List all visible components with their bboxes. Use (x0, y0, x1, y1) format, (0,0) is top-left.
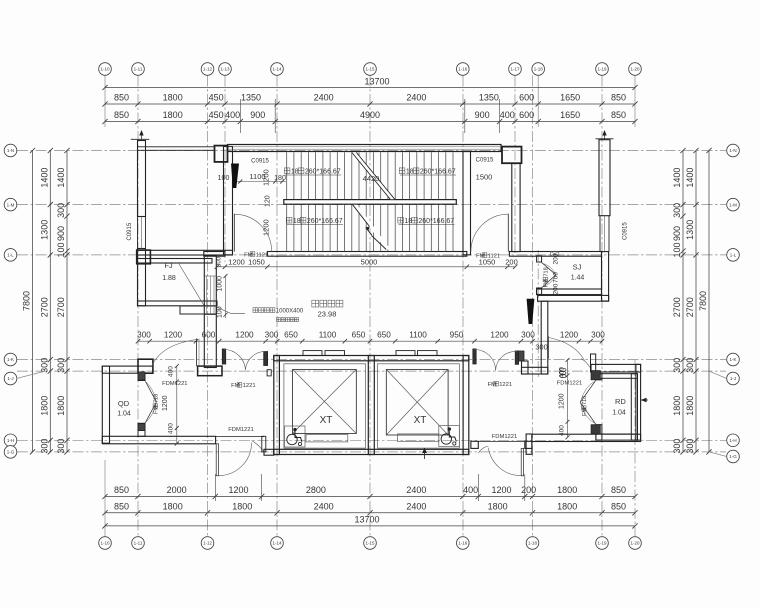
svg-text:100: 100 (218, 175, 230, 182)
door SJ leaf2 (542, 275, 556, 288)
grid line 1-K (17, 359, 726, 361)
door arc FM1121 right (471, 214, 508, 251)
door FM1221 jamb right (264, 352, 268, 366)
wall QD right upper (138, 373, 145, 380)
wall niche right (541, 301, 548, 374)
svg-text:650: 650 (377, 331, 391, 340)
svg-text:300: 300 (137, 331, 151, 340)
left dim inner line (66, 151, 68, 452)
svg-text:FDM1221: FDM1221 (162, 381, 187, 387)
svg-text:300: 300 (39, 358, 49, 373)
wall lobby top seg1 (204, 252, 225, 257)
svg-text:850: 850 (114, 502, 129, 512)
svg-text:1200: 1200 (560, 331, 579, 340)
svg-text:1300: 1300 (39, 220, 49, 240)
svg-text:2700: 2700 (56, 297, 66, 317)
svg-text:4420: 4420 (363, 174, 380, 183)
dim line QD v (176, 366, 178, 443)
right dim 7800 line (708, 151, 710, 452)
grid bubble right 1-H (727, 434, 740, 447)
svg-text:300: 300 (685, 358, 695, 373)
svg-text:850: 850 (611, 93, 626, 103)
grid line 1-J (17, 370, 726, 372)
elevator enclosure right wall (463, 356, 469, 455)
door arc FM1121 left (234, 214, 271, 251)
stair treads (286, 152, 288, 199)
svg-text:1-G: 1-G (7, 450, 15, 455)
door RD leaf2 (580, 402, 596, 424)
grid bubble right 1-G (727, 450, 740, 463)
grid bubble top 1-16 (457, 63, 470, 76)
svg-text:400: 400 (225, 110, 240, 120)
svg-text:1-20: 1-20 (630, 541, 640, 546)
wall stair left (224, 147, 233, 255)
svg-text:RD: RD (615, 397, 626, 406)
svg-text:1200: 1200 (164, 331, 183, 340)
svg-text:1400: 1400 (672, 168, 682, 188)
wall lobby top seg3 (509, 252, 601, 257)
grid line 1-17 (514, 76, 516, 257)
elevator shaft1 inner (284, 364, 366, 448)
svg-text:13700: 13700 (364, 77, 389, 87)
arrow cap right wall top (596, 138, 614, 140)
svg-text:300: 300 (39, 439, 49, 454)
dim line inner row (138, 340, 602, 342)
svg-text:300: 300 (265, 331, 279, 340)
grid bubble left 1-K (4, 353, 17, 366)
svg-text:FJ: FJ (164, 261, 173, 270)
wheelchair symbol 2 (439, 426, 460, 447)
svg-text:5000: 5000 (361, 257, 378, 266)
svg-text:1-J: 1-J (730, 376, 736, 381)
svg-text:260*166.67: 260*166.67 (305, 169, 341, 176)
corner block QD (138, 359, 153, 373)
svg-text:1.44: 1.44 (571, 275, 585, 282)
svg-text:1800: 1800 (557, 502, 577, 512)
right J leader (709, 371, 727, 378)
svg-text:1-M: 1-M (7, 202, 15, 207)
svg-text:1121: 1121 (256, 252, 268, 258)
svg-text:C0915: C0915 (127, 222, 133, 240)
grid bubble right 1-M (727, 198, 740, 211)
svg-text:850: 850 (611, 485, 626, 495)
svg-text:400: 400 (559, 367, 566, 378)
wall lobby top seg2 (267, 252, 466, 257)
grid bubble top 1-14 (271, 63, 284, 76)
grid line 1-H (17, 439, 726, 441)
svg-text:1800: 1800 (163, 110, 183, 120)
svg-text:4900: 4900 (360, 110, 380, 120)
svg-text:1800: 1800 (163, 502, 183, 512)
svg-text:1200: 1200 (490, 331, 509, 340)
svg-text:18: 18 (293, 218, 301, 225)
svg-text:300: 300 (672, 439, 682, 454)
grid line 1-M (17, 204, 726, 206)
drain symbol (560, 368, 566, 371)
svg-text:2400: 2400 (314, 502, 334, 512)
svg-text:1-12: 1-12 (203, 541, 213, 546)
jamb RD bottom (591, 425, 600, 434)
svg-text:300: 300 (591, 331, 605, 340)
svg-text:2400: 2400 (406, 93, 426, 103)
svg-text:1-18: 1-18 (528, 541, 538, 546)
svg-text:2700: 2700 (672, 297, 682, 317)
svg-text:1-J: 1-J (7, 376, 13, 381)
svg-text:1000: 1000 (217, 276, 224, 292)
svg-text:1-15: 1-15 (365, 541, 375, 546)
svg-text:1400: 1400 (685, 168, 695, 188)
counterweight 2 (398, 434, 439, 441)
door bottom-right leaf (521, 448, 523, 475)
svg-text:260*166.67: 260*166.67 (418, 218, 454, 225)
svg-text:1650: 1650 (560, 110, 580, 120)
door FDM1221-bottom-left leaf (216, 444, 218, 476)
wheelchair symbol 1 (285, 426, 306, 447)
dim line 13700 top (105, 87, 635, 89)
grid line 1-G (17, 451, 726, 453)
stair lower break line2 (372, 236, 387, 250)
door RD leaf1 (580, 380, 596, 402)
svg-text:2000: 2000 (167, 485, 187, 495)
grid bubble right 1-L (727, 249, 740, 262)
grid line x=277 (276, 76, 278, 537)
door FMJ arcs (475, 349, 496, 370)
right dim mid line (695, 151, 697, 452)
svg-text:2400: 2400 (314, 93, 334, 103)
elevator cab1 (293, 369, 357, 433)
leader window size (217, 307, 232, 314)
svg-text:1200: 1200 (559, 393, 566, 409)
grid bubble bottom 1-15 (364, 537, 377, 550)
svg-text:400: 400 (500, 110, 515, 120)
svg-text:C0915: C0915 (251, 159, 269, 165)
wall RD room top (596, 374, 638, 379)
stair upper break lines (352, 152, 390, 199)
svg-text:1-M: 1-M (729, 202, 737, 207)
svg-text:1-14: 1-14 (272, 541, 282, 546)
grid line 1-L (17, 254, 726, 256)
svg-text:260*166.67: 260*166.67 (307, 218, 343, 225)
wall outer bottom right-mid (538, 295, 609, 301)
stair label upper-right (399, 168, 405, 174)
door bottom-right arc (488, 448, 521, 476)
wall FJ pier (180, 306, 216, 314)
svg-text:1-20: 1-20 (630, 67, 640, 72)
svg-text:1-16: 1-16 (458, 67, 468, 72)
svg-text:1.04: 1.04 (117, 411, 131, 418)
corner block upper-left (137, 250, 151, 264)
grid bubble bottom 1-20 (629, 537, 642, 550)
left dim mid line (49, 151, 51, 452)
svg-text:1-18: 1-18 (534, 67, 544, 72)
grid bubble top 1-20 (629, 63, 642, 76)
label window note (277, 318, 281, 322)
svg-text:450: 450 (209, 93, 224, 103)
svg-text:1800: 1800 (672, 396, 682, 416)
window band top (228, 145, 502, 152)
label FM718 SJ (543, 267, 549, 287)
dim line rlobby v (567, 360, 569, 437)
svg-text:1-H: 1-H (7, 438, 14, 443)
svg-text:600: 600 (202, 331, 216, 340)
elevator door panel 303 (303, 351, 322, 356)
window 1000x400 in wall (206, 276, 208, 315)
svg-text:FM: FM (154, 406, 160, 414)
svg-text:1-K: 1-K (7, 357, 14, 362)
wall niche bottom (522, 367, 548, 374)
door leaf FM1121 left (233, 214, 235, 252)
wall top FJ-upper (138, 147, 215, 151)
stair lower break gap (353, 205, 391, 250)
grid line 1-18 top (537, 76, 539, 128)
wall QD bottom (102, 436, 215, 444)
svg-text:1200: 1200 (228, 485, 248, 495)
grid bubble right 1-N (727, 144, 740, 157)
svg-text:1800: 1800 (56, 396, 66, 416)
svg-text:100: 100 (672, 242, 682, 257)
wall right outer upper (599, 140, 610, 216)
dim extension stems top (239, 99, 241, 133)
svg-text:718: 718 (154, 394, 160, 403)
FJ diagonal (178, 263, 203, 305)
jamb QD door bottom (138, 424, 145, 431)
svg-text:SJ: SJ (573, 263, 582, 272)
svg-text:200: 200 (521, 485, 536, 495)
label FM718 QD (153, 394, 159, 414)
dim line doors row (217, 266, 515, 268)
wall RD top outer (591, 364, 641, 372)
svg-text:1300: 1300 (685, 220, 695, 240)
jamb QD door top (138, 372, 145, 380)
svg-text:200: 200 (505, 258, 518, 267)
wall step down QD (262, 436, 266, 452)
svg-text:718: 718 (544, 267, 550, 276)
svg-text:1200: 1200 (228, 258, 245, 267)
svg-text:2400: 2400 (406, 485, 426, 495)
svg-text:200: 200 (553, 253, 560, 264)
svg-text:1800: 1800 (232, 502, 252, 512)
svg-text:1200: 1200 (491, 485, 511, 495)
svg-text:1800: 1800 (39, 396, 49, 416)
grid bubble bottom 1-16 (457, 537, 470, 550)
svg-text:1-11: 1-11 (134, 541, 143, 546)
grid bubble top 1-11 (132, 63, 145, 76)
wall lobby left (204, 256, 216, 368)
svg-text:1800: 1800 (557, 485, 577, 495)
svg-text:1-15: 1-15 (365, 67, 375, 72)
svg-text:FM: FM (476, 253, 485, 259)
svg-text:1221: 1221 (499, 382, 512, 388)
svg-text:1221: 1221 (243, 383, 256, 389)
jamb RD top (591, 371, 600, 380)
wall SJ left upper (537, 256, 542, 262)
svg-text:1500: 1500 (476, 173, 493, 182)
grid bubble bottom 1-10 (99, 537, 112, 550)
grid line 1-10 (104, 76, 106, 128)
wall SJ left lower (537, 288, 542, 294)
svg-text:1350: 1350 (479, 93, 499, 103)
door FDM1221-ur arc (549, 338, 585, 361)
svg-text:FM: FM (244, 252, 253, 258)
door leaf FM1121 right (507, 214, 509, 252)
svg-text:1-14: 1-14 (272, 67, 282, 72)
door FM1221 arcs (224, 350, 245, 370)
svg-text:718: 718 (582, 396, 588, 405)
section arrow RD (641, 399, 648, 401)
grid bubble bottom 1-19 (596, 537, 609, 550)
grid bubble top 1-12 (201, 63, 214, 76)
grid line x=138 (137, 76, 139, 537)
wall RD room left lower (596, 425, 602, 440)
svg-text:950: 950 (450, 331, 464, 340)
svg-text:1-17: 1-17 (510, 67, 520, 72)
corner column right (502, 147, 522, 164)
grid bubble top 1-13 (219, 63, 232, 76)
grid line 1-20 (634, 76, 636, 128)
elevator door panel 418 (418, 351, 438, 356)
svg-text:1-12: 1-12 (203, 67, 213, 72)
elevator cab2 (386, 369, 448, 435)
U footing lobby-left wall (198, 366, 222, 376)
svg-text:C0915: C0915 (623, 222, 629, 240)
vent window in wall (551, 252, 559, 256)
wall right outer mid (602, 252, 609, 301)
svg-text:1400: 1400 (56, 168, 66, 188)
svg-text:1.88: 1.88 (162, 275, 176, 282)
svg-text:XT: XT (320, 415, 333, 426)
svg-text:1-N: 1-N (729, 148, 736, 153)
wall corridor right (512, 163, 520, 251)
section marker below elevators (424, 448, 426, 459)
svg-text:1200: 1200 (162, 395, 169, 411)
svg-text:1-11: 1-11 (134, 67, 143, 72)
stair mid landing slab (284, 200, 457, 205)
grid line x=602 (601, 76, 603, 537)
elevator enclosure left wall (274, 356, 280, 455)
stair lower break arrow (366, 227, 370, 231)
wall RD room bottom (596, 434, 638, 440)
svg-text:850: 850 (611, 502, 626, 512)
jamb FM1221J (519, 351, 524, 361)
grid line x=532.5 (532, 76, 534, 537)
svg-text:18: 18 (291, 169, 299, 176)
elevator enclosure bottom wall (274, 449, 469, 454)
wall bottom lower seg2 (525, 441, 532, 448)
grid bubble left 1-M (4, 198, 17, 211)
grid bubble left 1-J (4, 372, 17, 385)
svg-text:650: 650 (352, 331, 366, 340)
svg-text:1100: 1100 (409, 331, 427, 340)
svg-text:450: 450 (209, 110, 224, 120)
svg-text:1-G: 1-G (729, 454, 737, 459)
svg-text:1-13: 1-13 (220, 67, 230, 72)
wall bottom outer left (264, 449, 274, 455)
grid line 1-N (17, 150, 726, 152)
svg-text:2400: 2400 (406, 502, 426, 512)
svg-text:300: 300 (672, 203, 682, 218)
step block bottom (526, 434, 532, 454)
svg-text:C0915: C0915 (476, 158, 494, 164)
door FMJ leaf2 (515, 351, 518, 365)
svg-text:1-19: 1-19 (597, 541, 607, 546)
svg-text:1200: 1200 (262, 169, 271, 186)
grid bubble bottom 1-14 (271, 537, 284, 550)
svg-text:850: 850 (114, 485, 129, 495)
svg-text:1800: 1800 (685, 396, 695, 416)
window C0915 right wall (599, 216, 601, 252)
dim row1 bottom line (105, 496, 635, 498)
elevator enclosure top wall (274, 356, 469, 361)
dim extension stems bottom (214, 474, 216, 501)
wall upper-left room bottom (138, 250, 233, 255)
grid bubble bottom 1-18 (526, 537, 539, 550)
svg-text:900: 900 (56, 226, 66, 241)
svg-text:300: 300 (56, 439, 66, 454)
svg-text:1-L: 1-L (7, 253, 14, 258)
svg-text:650: 650 (284, 331, 298, 340)
svg-text:7800: 7800 (698, 291, 708, 311)
svg-text:850: 850 (114, 93, 129, 103)
svg-text:1-L: 1-L (730, 253, 737, 258)
grid line x=370 (369, 76, 371, 537)
dim line 13700 bottom (105, 525, 635, 527)
grid bubble bottom 1-11 (132, 537, 145, 550)
grid bubble left 1-N (4, 144, 17, 157)
label lobby name (312, 300, 319, 307)
elevator divider wall (368, 356, 374, 455)
grid bubble top 1-19 (596, 63, 609, 76)
wall niche left (522, 361, 529, 374)
dim row2 top line (105, 121, 635, 123)
door FDM1221-bottom-left lintel line (216, 436, 264, 438)
svg-text:FDM1221: FDM1221 (228, 427, 253, 433)
svg-text:400: 400 (463, 485, 478, 495)
svg-text:1800: 1800 (163, 93, 183, 103)
svg-text:FM: FM (488, 382, 497, 388)
wall QD top (102, 366, 153, 373)
svg-text:1.04: 1.04 (612, 410, 626, 417)
dim line window v (225, 276, 227, 318)
grid line x=207.5 (207, 76, 209, 537)
wall left outer upper (138, 141, 146, 217)
grid bubble top 1-15 (364, 63, 377, 76)
stair label lower-left (286, 217, 292, 223)
label C0915 left wall (127, 222, 133, 240)
grid bubble left 1-G (4, 446, 17, 459)
svg-text:1650: 1650 (560, 93, 580, 103)
door FM1221 jamb left (222, 349, 225, 364)
elevator shaft2 inner (378, 364, 460, 448)
wall FJ bottom (138, 301, 218, 306)
svg-text:QD: QD (118, 399, 130, 408)
svg-text:400: 400 (168, 423, 175, 434)
wall bottom band RD (532, 434, 641, 441)
svg-text:100: 100 (56, 242, 66, 257)
black column niche (527, 299, 535, 324)
svg-text:300: 300 (217, 256, 223, 267)
svg-text:1400: 1400 (39, 168, 49, 188)
svg-text:1050: 1050 (248, 258, 265, 267)
door QD leaf2 (145, 402, 156, 423)
wall stair right (463, 152, 471, 255)
wall bottom lower seg1 (471, 441, 478, 448)
door QD leaf1 (145, 381, 156, 403)
grid bubble top 1-17 (509, 63, 522, 76)
left J leader (17, 371, 46, 378)
grid bubble top 1-18 (532, 63, 545, 76)
wall FJ top (138, 259, 213, 264)
svg-text:23.98: 23.98 (318, 310, 337, 319)
